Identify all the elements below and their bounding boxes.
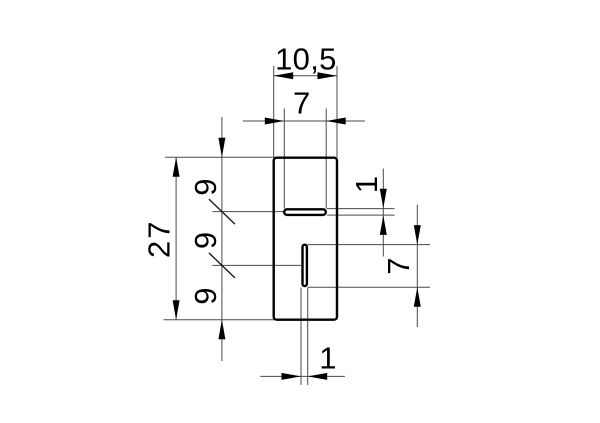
svg-text:9: 9 (188, 232, 223, 250)
svg-text:9: 9 (188, 178, 223, 196)
svg-text:7: 7 (293, 85, 311, 120)
svg-text:7: 7 (381, 257, 416, 275)
svg-text:10,5: 10,5 (275, 42, 337, 77)
svg-text:1: 1 (349, 176, 384, 194)
svg-text:9: 9 (188, 287, 223, 305)
svg-text:27: 27 (142, 219, 177, 257)
svg-text:1: 1 (319, 341, 337, 376)
